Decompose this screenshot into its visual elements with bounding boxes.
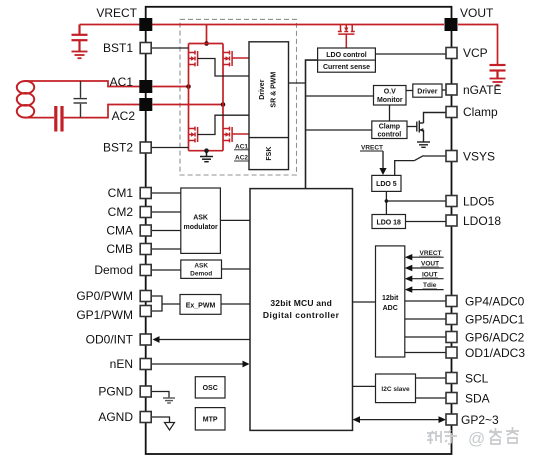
svg-text:PGND: PGND [98,385,133,399]
wire gate M2 to driver (red) [232,57,249,59]
svg-text:VRECT: VRECT [96,6,137,20]
inductor L1 receive coil [17,81,34,118]
svg-text:BST1: BST1 [103,41,133,55]
wire OV monitor to driver [406,90,413,92]
pin GP4/ADC0 [446,296,457,307]
pin VCP [446,48,457,59]
wire bus to clamp control [306,129,372,131]
svg-text:nGATE: nGATE [463,83,501,97]
block Current sense [318,60,376,72]
transistor M3 (lower-left FET) [189,127,198,143]
block LDO control [318,48,376,60]
pin AGND [140,412,151,423]
pin CMB [140,244,151,255]
wire coil bottom to series cap [25,117,54,119]
pin GP6/ADC2 [446,332,457,343]
svg-text:GP6/ADC2: GP6/ADC2 [465,331,525,345]
svg-text:LDO 18: LDO 18 [376,220,401,227]
svg-text:AC1: AC1 [110,75,134,89]
wire bridge feeder from VRECT rail [206,25,208,44]
wire bridge frame rails (red) [189,44,224,151]
block ASK Demod [181,260,222,278]
svg-text:nEN: nEN [110,357,133,371]
svg-text:SCL: SCL [465,372,489,386]
block 12bit ADC [376,246,405,357]
svg-text:GP0/PWM: GP0/PWM [76,289,133,303]
svg-text:Current sense: Current sense [323,64,370,71]
svg-text:modulator: modulator [183,224,217,231]
svg-text:LDO control: LDO control [326,52,366,59]
node bridge bottom junction [204,148,209,153]
svg-text:AGND: AGND [98,410,133,424]
svg-text:LDO5: LDO5 [463,195,495,209]
wire VRECT to LDO5 with arrow [382,151,384,169]
block LDO18 [372,215,406,229]
switch to VSYS [414,156,423,161]
wire ADC to GP6/ADC2 [405,336,446,338]
node bridge top junction [204,41,209,46]
svg-text:BST2: BST2 [103,141,133,155]
pin Demod [140,265,151,276]
wire VOUT to external cap (red) [458,25,498,65]
ground AGND (open triangle) [165,423,175,431]
wire CM2 to ASK modulator [152,211,181,213]
block MCU [250,189,353,431]
wire LDO control to VCP pin [375,53,446,55]
wire LDO18 to pin [406,221,447,223]
pin nEN [140,359,151,370]
wire BST2 pin to bridge [152,147,189,149]
wire to LDO5 pin [386,200,446,202]
svg-text:Driver: Driver [259,79,266,100]
pin GP1/PWM [140,306,151,317]
svg-text:MTP: MTP [203,417,218,424]
capacitor C-parallel (black) [74,81,88,118]
svg-text:CMA: CMA [106,224,133,238]
svg-text:Demod: Demod [190,271,212,278]
wire AGND to ground [152,417,170,423]
wire ASK modulator to MCU [220,219,250,221]
wire GP0/GP1 bracket [152,296,162,311]
wire pass FET gate to LDO control (red) [345,34,347,48]
svg-text:Monitor: Monitor [377,97,403,104]
wire gate M3 to driver (black dogleg) [198,115,249,134]
pin GP5/ADC1 [446,314,457,325]
svg-text:I2C slave: I2C slave [381,386,410,393]
pin OD0/INT [140,334,151,345]
wire gate M4 to driver (red) [232,133,249,135]
pin SCL [446,373,457,384]
svg-text:AC2: AC2 [112,109,136,123]
svg-text:control: control [378,132,402,139]
svg-text:Demod: Demod [94,263,133,277]
wire Ex_PWM to MCU [221,303,250,305]
capacitor C-vrect at VRECT [72,25,88,52]
svg-text:OD1/ADC3: OD1/ADC3 [465,346,525,360]
wire Demod pin to ASK Demod [152,269,181,271]
wire CMA to ASK modulator [152,230,181,232]
svg-text:AC2: AC2 [235,155,248,162]
svg-text:VRECT: VRECT [361,144,383,151]
pin nGATE [446,84,457,95]
wire OV monitor to clamp control [389,105,391,121]
block OV Monitor [374,86,407,106]
wire nEN to MCU with arrow [152,363,247,365]
wire LDO5 out [385,191,387,214]
block ASK modulator [181,188,221,253]
pin CMA [140,225,151,236]
pin BST2 [140,142,151,153]
dashed inner box (power stage) [180,19,297,175]
wire ASK Demod to MCU [222,268,251,270]
svg-text:Clamp: Clamp [379,124,400,131]
watermark zhihu [427,430,457,444]
wire BST1 pin to bridge [152,47,189,49]
pin AC1 [139,80,152,93]
wire series cap to AC2 pin [64,105,140,118]
wire LDO5 to VSYS switch [395,161,415,176]
svg-text:32bit MCU and: 32bit MCU and [270,298,332,308]
svg-text:Digital controller: Digital controller [263,310,340,320]
svg-text:O.V: O.V [384,89,396,96]
svg-text:VOUT: VOUT [460,6,494,20]
wire MCU to GP2~3 double arrow [356,419,443,421]
wire coil top to AC1 pin [25,81,140,87]
pin VOUT [445,18,458,31]
ground at C-vrect [72,52,88,59]
pin CM1 [140,188,151,199]
transistor M2 (upper-right FET) [223,51,232,67]
ground at C-out [490,79,506,86]
wire AC2 pin to bridge [153,104,224,106]
svg-text:LDO18: LDO18 [463,214,501,228]
block LDO5 [372,175,401,191]
block MTP [195,408,225,430]
transistor M1 (upper-left FET) [189,51,198,67]
wire I2C to SCL [416,377,447,379]
pin SDA [446,393,457,404]
wire ADC to OD1/ADC3 [405,352,446,354]
pin AC2 [139,98,152,111]
wire MCU to I2C [353,385,376,387]
wire I2C to SDA [416,397,447,399]
pin BST1 [140,43,151,54]
svg-text:FSK: FSK [266,147,273,161]
wire bus to OV monitor [306,95,374,97]
capacitor C-series (resonant) [54,106,63,132]
wire CM1 to ASK modulator [152,192,181,194]
pin CM2 [140,207,151,218]
svg-text:AC1: AC1 [235,143,248,150]
transistor M5 pass FET at VOUT (red) [338,25,355,35]
wire ADC to GP4/ADC0 [405,300,446,302]
wire AC1 pin to bridge [153,86,189,88]
wire control bus vertical [306,60,318,189]
node LDO5 out junction [385,199,389,203]
svg-text:12bit: 12bit [382,295,399,302]
wire CMB to ASK modulator [152,248,181,250]
svg-text:SDA: SDA [465,392,490,406]
svg-text:Clamp: Clamp [463,105,498,119]
block Ex_PWM [180,295,221,315]
transistor M4 (lower-right FET) [223,127,232,143]
wire ADC to GP5/ADC1 [405,318,446,320]
wire VRECT rail (red) [80,24,445,26]
svg-text:SR & PWM: SR & PWM [271,72,278,108]
block Clamp control [372,121,407,139]
svg-text:Ex_PWM: Ex_PWM [186,303,216,310]
svg-text:ASK: ASK [194,263,208,270]
wire PGND to ground [152,392,169,398]
pin LDO18 [446,215,457,226]
block Driver SR & PWM / FSK [249,42,289,170]
ground clamp FET [417,142,430,147]
pin GP0/PWM [140,291,151,302]
wire driver to bus [289,82,306,84]
node AC1-rail junction [186,84,191,89]
capacitor C-out at VOUT [490,65,506,78]
svg-text:Driver: Driver [417,89,438,96]
IC boundary box [146,7,452,454]
svg-text:CM2: CM2 [108,205,134,219]
svg-text:VSYS: VSYS [463,150,495,164]
svg-text:CMB: CMB [106,242,133,256]
svg-text:GP1/PWM: GP1/PWM [76,308,133,322]
node AC2-rail junction [221,102,226,107]
pin PGND [140,386,151,397]
pin LDO5 [446,196,457,207]
wire MCU to OD0/INT with arrow [155,339,250,341]
svg-text:OD0/INT: OD0/INT [86,333,134,347]
wire gate M1 to driver (black dogleg) [198,59,249,77]
transistor Q1 clamp FET [417,113,446,142]
wire driver to nGATE pin [442,89,446,91]
block OSC [195,377,225,398]
ground bridge [200,151,213,162]
pin OD1/ADC3 [446,347,457,358]
ground PGND [163,398,175,403]
svg-text:@: @ [468,429,485,448]
pin VRECT [139,18,152,31]
svg-text:OSC: OSC [203,385,218,392]
svg-text:LDO 5: LDO 5 [376,181,397,188]
pin Clamp [446,107,457,118]
svg-text:GP2~3: GP2~3 [461,413,499,427]
block Driver (gate driver) [413,84,442,97]
svg-text:ASK: ASK [193,215,208,222]
svg-text:GP5/ADC1: GP5/ADC1 [465,313,525,327]
svg-text:ADC: ADC [383,305,398,312]
pin VSYS [446,151,457,162]
svg-text:GP4/ADC0: GP4/ADC0 [465,295,525,309]
wire MCU to ADC [353,301,376,303]
block I2C slave [376,374,416,403]
pin GP2~3 [446,414,457,425]
svg-text:VCP: VCP [463,46,488,60]
svg-text:CM1: CM1 [108,186,134,200]
wire clamp control to clamp FET gate [407,126,417,128]
